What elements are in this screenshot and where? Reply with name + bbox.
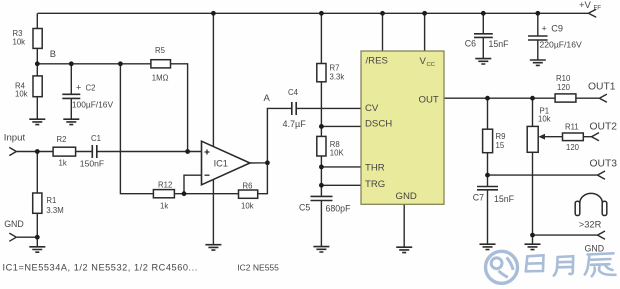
svg-text:CV: CV [365, 103, 379, 114]
svg-text:R11: R11 [565, 122, 579, 131]
svg-text:1MΩ: 1MΩ [152, 73, 169, 82]
svg-text:15nF: 15nF [494, 194, 515, 204]
svg-text:680pF: 680pF [326, 203, 352, 213]
svg-text:+V: +V [579, 0, 592, 11]
svg-text:IC1: IC1 [214, 159, 228, 169]
svg-text:R2: R2 [57, 135, 67, 144]
svg-text:A: A [264, 93, 271, 104]
svg-text:IC1=NE5534A, 1/2 NE5532, 1/2 R: IC1=NE5534A, 1/2 NE5532, 1/2 RC4560... [3, 262, 198, 272]
svg-text:C7: C7 [473, 193, 484, 203]
svg-text:15: 15 [496, 141, 505, 150]
svg-text:R6: R6 [243, 181, 253, 190]
svg-text:Input: Input [4, 132, 26, 143]
svg-text:10k: 10k [15, 90, 28, 99]
svg-text:C6: C6 [465, 38, 476, 48]
svg-text:220µF/16V: 220µF/16V [540, 39, 582, 49]
svg-text:1k: 1k [59, 159, 67, 168]
svg-text:THR: THR [365, 163, 385, 174]
svg-text:C4: C4 [288, 88, 299, 97]
svg-text:C2: C2 [86, 84, 96, 93]
svg-text:GND: GND [4, 219, 24, 229]
svg-text:/RES: /RES [366, 56, 388, 67]
svg-text:10k: 10k [13, 38, 26, 47]
svg-text:15nF: 15nF [489, 39, 510, 49]
svg-text:GND: GND [585, 243, 605, 253]
svg-text:+: + [542, 23, 547, 33]
svg-text:DSCH: DSCH [365, 119, 392, 130]
svg-text:4.7µF: 4.7µF [283, 119, 307, 129]
svg-text:GND: GND [396, 191, 417, 202]
svg-text:OUT3: OUT3 [590, 158, 618, 169]
svg-text:1k: 1k [160, 201, 168, 210]
svg-text:B: B [50, 49, 56, 59]
svg-text:V: V [420, 56, 427, 67]
svg-text:R9: R9 [496, 132, 506, 141]
svg-text:10k: 10k [241, 202, 254, 211]
svg-text:R8: R8 [330, 140, 340, 149]
svg-text:100µF/16V: 100µF/16V [72, 99, 114, 109]
svg-text:R1: R1 [46, 196, 56, 205]
svg-text:10K: 10K [330, 149, 345, 158]
svg-text:IC2 NE555: IC2 NE555 [237, 262, 279, 272]
svg-text:OUT: OUT [419, 94, 439, 105]
svg-text:10k: 10k [538, 114, 551, 123]
svg-text:TRG: TRG [365, 179, 385, 190]
svg-text:R12: R12 [158, 181, 172, 190]
svg-text:C9: C9 [551, 24, 563, 34]
svg-text:CC: CC [427, 62, 435, 68]
svg-text:3.3k: 3.3k [330, 72, 345, 81]
svg-text:R5: R5 [155, 46, 166, 55]
svg-text:3.3M: 3.3M [46, 206, 63, 215]
svg-text:OUT2: OUT2 [590, 121, 618, 132]
svg-text:OUT1: OUT1 [588, 82, 616, 93]
svg-text:C5: C5 [299, 202, 310, 212]
svg-text:>32R: >32R [579, 220, 602, 230]
svg-text:120: 120 [566, 143, 580, 152]
svg-text:C1: C1 [91, 134, 101, 143]
svg-text:R10: R10 [556, 74, 571, 83]
svg-text:120: 120 [557, 83, 571, 92]
svg-text:+: + [76, 83, 81, 93]
svg-text:FF: FF [594, 4, 602, 11]
svg-text:150nF: 150nF [80, 159, 104, 169]
svg-text:R7: R7 [330, 63, 340, 72]
